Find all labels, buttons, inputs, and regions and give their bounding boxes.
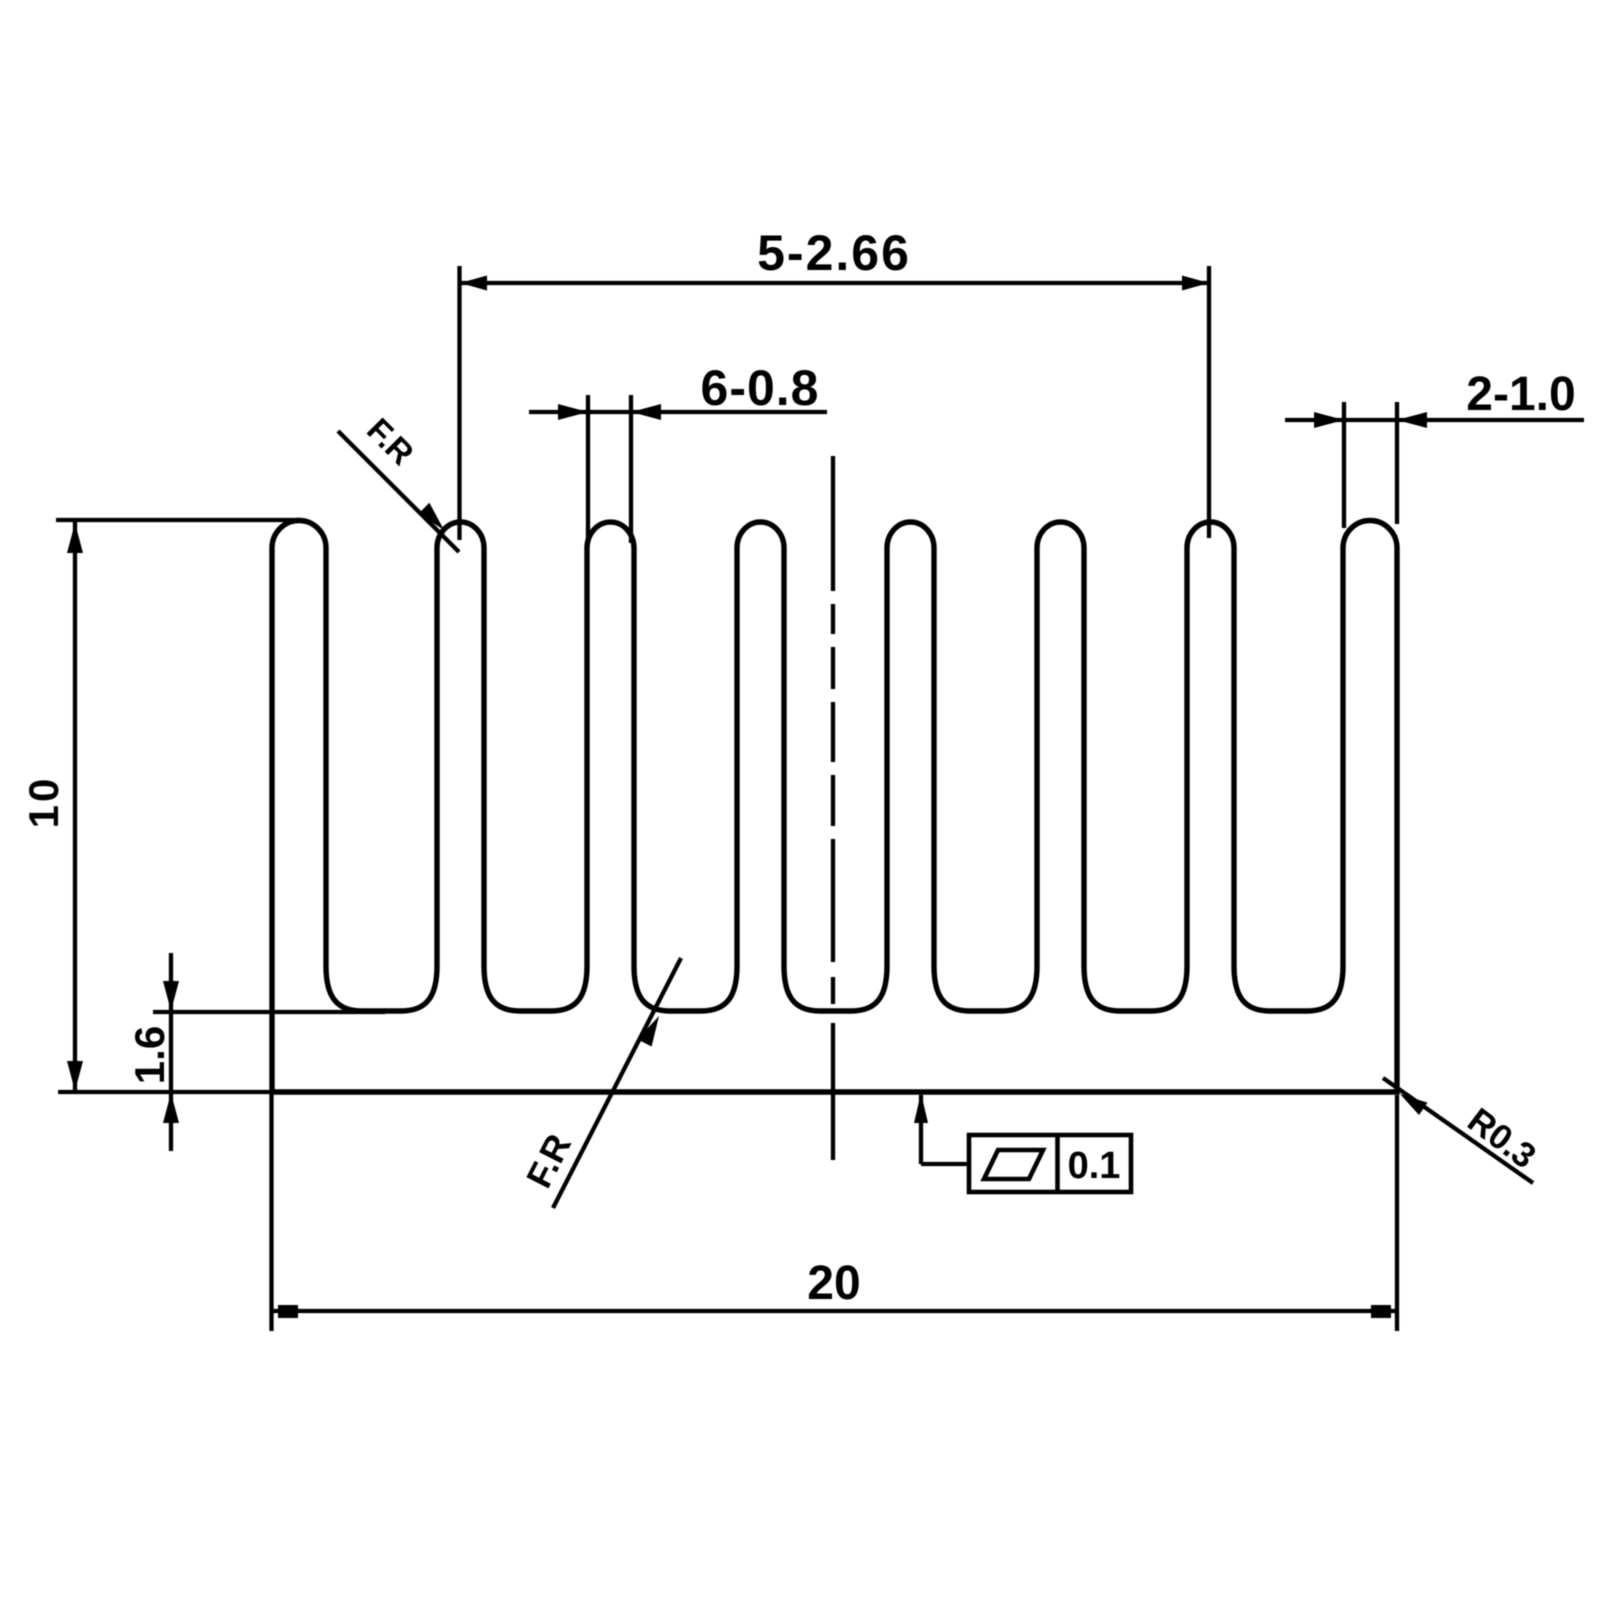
leader R0.3 [1383, 1078, 1533, 1183]
flatness leader horizontal [921, 1162, 969, 1166]
svg-text:2-1.0: 2-1.0 [1466, 368, 1575, 421]
dim 20 dimension line [272, 1309, 1398, 1313]
feature control frame divider [1055, 1135, 1060, 1192]
flatness symbol parallelogram [984, 1150, 1043, 1179]
dim 1.6 arrow bottom (outside, pointing up) [163, 1093, 179, 1123]
dim 6-0.8 arrow left (outside) [558, 404, 588, 420]
dim 5-2.66 extension line left [457, 266, 461, 540]
dim 10 arrow top [67, 523, 83, 553]
svg-text:20: 20 [807, 1257, 860, 1310]
flatness leader arrow [914, 1093, 928, 1123]
dim 2-1.0 extension line right [1395, 402, 1399, 524]
dim 5-2.66 arrow left [460, 276, 487, 291]
dim 5-2.66 arrow right [1182, 276, 1209, 291]
dim 1.6 extension line [153, 1010, 385, 1014]
dim 2-1.0 arrow right (outside) [1397, 412, 1427, 428]
leader F.R bottom [553, 958, 681, 1208]
dim 6-0.8 extension line right [629, 395, 633, 543]
dim 6-0.8 dimension line [529, 410, 827, 414]
leader F.R bottom arrow [637, 1016, 659, 1047]
dim 1.6 arrow top (outside, pointing down) [163, 981, 179, 1011]
leader F.R top arrow [419, 503, 444, 530]
svg-text:5-2.66: 5-2.66 [757, 225, 911, 281]
heatsink profile outline [272, 521, 1397, 1093]
dim 2-1.0 extension line left [1342, 402, 1346, 528]
svg-text:10: 10 [20, 776, 67, 829]
dim 6-0.8 arrow right (outside) [631, 404, 661, 420]
dim 2-1.0 dimension line [1285, 418, 1584, 422]
dim 20 terminator left [278, 1305, 298, 1318]
dim 10 dimension line [73, 521, 77, 1092]
dim 6-0.8 extension line left [586, 395, 590, 543]
feature control frame box [969, 1135, 1131, 1192]
dim 5-2.66 extension line right [1207, 266, 1211, 538]
leader R0.3 arrow [1400, 1094, 1428, 1115]
dim 20 terminator right [1371, 1305, 1391, 1318]
svg-text:0.1: 0.1 [1068, 1145, 1121, 1187]
dim 10 top extension line [56, 518, 300, 522]
dim 5-2.66 dimension line [460, 281, 1210, 285]
dim 2-1.0 arrow left (outside) [1314, 412, 1344, 428]
dim 20 extension line right [1395, 1095, 1399, 1331]
dim 1.6 dimension line [169, 953, 173, 1151]
dim 10 arrow bottom [67, 1061, 83, 1091]
flatness leader vertical with arrow [919, 1095, 923, 1164]
leader F.R top [338, 431, 459, 552]
svg-text:6-0.8: 6-0.8 [701, 360, 820, 416]
centerline (symmetry axis) [831, 456, 835, 1160]
svg-text:1.6: 1.6 [126, 1026, 173, 1084]
dim 10 bottom extension (baseline extended) [58, 1090, 272, 1094]
dim 20 extension line left [269, 1092, 273, 1331]
